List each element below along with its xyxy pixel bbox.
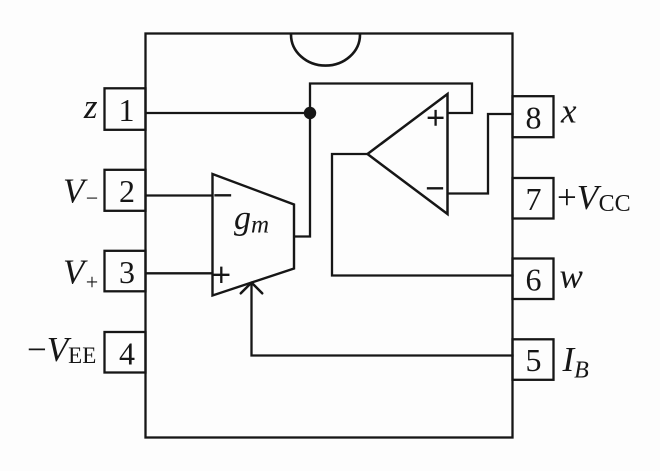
gm value label xyxy=(234,200,269,239)
node A junction dot xyxy=(304,107,316,119)
wire pin2 to gm - input xyxy=(146,194,212,196)
svg-text:x: x xyxy=(560,91,577,130)
label -VEE (pin4) xyxy=(27,330,96,369)
svg-text:3: 3 xyxy=(119,254,135,290)
pin 1 number xyxy=(119,92,135,128)
label z (pin1) xyxy=(83,87,98,126)
op-amp plus input marker xyxy=(429,111,443,125)
svg-text:5: 5 xyxy=(526,342,542,378)
wire pin3 to gm + input xyxy=(146,272,212,274)
pin 7 number xyxy=(526,181,542,217)
label +VCC (pin7) xyxy=(557,178,631,217)
pin 8 number xyxy=(526,99,542,135)
notch (pin-1 index mark) xyxy=(291,35,360,66)
pin 5 box xyxy=(513,339,554,380)
svg-text:8: 8 xyxy=(526,99,542,135)
gm plus input marker xyxy=(214,268,228,282)
pin 8 box xyxy=(513,96,554,137)
pin 2 box xyxy=(105,170,146,211)
svg-text:6: 6 xyxy=(526,261,542,297)
pin 4 box xyxy=(105,332,146,373)
pin 2 number xyxy=(119,173,135,209)
label x (pin8) xyxy=(560,91,577,130)
pin 3 box xyxy=(105,251,146,291)
op-amp minus input marker xyxy=(428,187,442,189)
op-amp U3 buffer triangle xyxy=(368,94,448,214)
label w (pin6) xyxy=(560,257,584,296)
label IB (pin5) xyxy=(562,340,590,384)
pin 6 number xyxy=(526,261,542,297)
pin 3 number xyxy=(119,254,135,290)
svg-text:7: 7 xyxy=(526,181,542,217)
label V+ (pin3) xyxy=(63,253,99,295)
pin 6 box xyxy=(513,259,554,300)
pin 5 number xyxy=(526,342,542,378)
gm minus input marker xyxy=(216,194,231,196)
svg-text:z: z xyxy=(83,87,98,126)
wire pin5 IB to gm bias input xyxy=(252,284,513,356)
pin 4 number xyxy=(119,335,135,371)
wire pin1 z to node A xyxy=(146,112,310,114)
label V- (pin2) xyxy=(63,172,99,211)
svg-text:1: 1 xyxy=(119,92,135,128)
OTA U2 gm block xyxy=(213,174,295,296)
svg-text:4: 4 xyxy=(119,335,135,371)
svg-text:w: w xyxy=(560,257,584,296)
pin 1 box xyxy=(105,88,146,130)
pin 7 box xyxy=(513,178,554,219)
wire node A up and over to op-amp + input xyxy=(310,84,472,114)
wire op-amp output to pin6 w xyxy=(332,154,513,276)
wire node A down to gm output xyxy=(295,113,311,237)
IC body U1 xyxy=(146,34,513,438)
wire op-amp - input to pin8 x xyxy=(449,114,513,194)
bias arrowhead into gm xyxy=(241,283,262,294)
svg-text:2: 2 xyxy=(119,173,135,209)
